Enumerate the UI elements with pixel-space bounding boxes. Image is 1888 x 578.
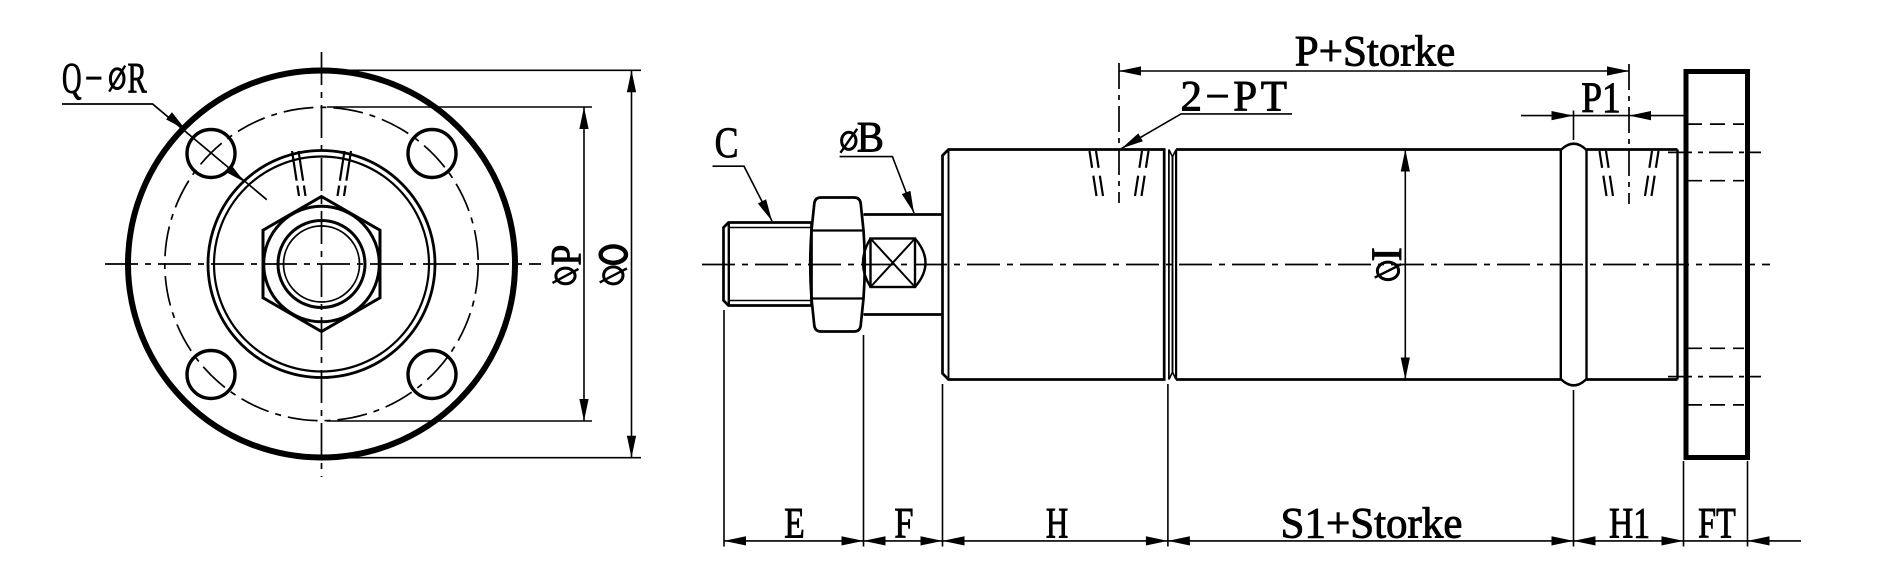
svg-text:Q: Q [62, 54, 82, 102]
side view: cylinder [702, 63, 1770, 458]
oB label leader [840, 157, 914, 213]
P+Storke dimension [1119, 70, 1629, 72]
cylinder head circles [208, 151, 435, 378]
hex nut [263, 197, 380, 332]
svg-text:B: B [857, 115, 884, 162]
svg-text:P1: P1 [1581, 74, 1621, 122]
rear flange plate [1686, 72, 1748, 458]
label oB [840, 129, 857, 153]
horizontal centerline [105, 263, 541, 265]
label oI (rotated) [1364, 247, 1411, 261]
threaded rod C [724, 223, 812, 306]
cylinder body section 1 (H) [943, 150, 1165, 380]
bottom dimension chain [724, 310, 1801, 547]
main centerline [702, 264, 1770, 266]
cylinder body section 2 (S1) [1176, 148, 1561, 151]
svg-text:P+Storke: P+Storke [1295, 29, 1455, 76]
rod boss oB [864, 213, 943, 216]
svg-text:I: I [1364, 247, 1411, 261]
svg-text:E: E [784, 501, 804, 548]
svg-text:2−PT: 2−PT [1181, 74, 1291, 121]
cushion ring collar [1560, 150, 1562, 380]
wrench flat square with X [871, 239, 916, 288]
flange bolt hole centerlines [1668, 151, 1761, 153]
weld groove joint [1168, 150, 1170, 380]
outer flange circle [128, 71, 515, 458]
svg-text:C: C [715, 119, 739, 167]
port centerlines [1118, 63, 1120, 203]
label oO (rotated) [601, 246, 626, 262]
svg-text:H1: H1 [1609, 501, 1650, 548]
bolt circle (dash-dot) [165, 107, 478, 420]
svg-text:S1+Storke: S1+Storke [1281, 501, 1463, 548]
svg-text:H: H [1046, 501, 1068, 548]
4 bolt holes [187, 130, 235, 178]
oP and oO dimensions [322, 70, 642, 457]
P1 dimension [1521, 111, 1684, 141]
svg-text:P: P [542, 245, 590, 266]
svg-text:FT: FT [1698, 500, 1736, 548]
svg-text:−: − [85, 55, 103, 103]
rod thread circles [278, 221, 365, 308]
hex nut side view [810, 198, 865, 332]
left view: flange front [105, 52, 541, 477]
cylinder body section 3 (H1) [1587, 148, 1678, 151]
Q-oR leader line [62, 104, 267, 200]
label oP (rotated) [542, 245, 590, 266]
svg-text:R: R [128, 54, 148, 102]
svg-text:F: F [894, 500, 913, 547]
nut chamfer circle [264, 206, 380, 322]
vertical centerline [321, 52, 323, 477]
port projection marks (front view) [292, 151, 299, 196]
2-PT leader [1122, 114, 1292, 148]
flange bolt hole hidden lines [1687, 123, 1744, 125]
C label leader [713, 166, 773, 221]
port marks 2-PT (side view) [1090, 151, 1097, 196]
oI dimension [1404, 150, 1406, 380]
